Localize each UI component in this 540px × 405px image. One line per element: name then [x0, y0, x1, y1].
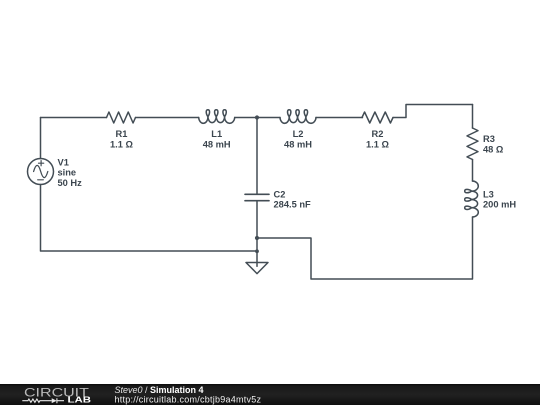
resistor R3 — [467, 128, 478, 159]
resistor R1 — [107, 112, 136, 123]
svg-text:Steve0 / Simulation 4: Steve0 / Simulation 4 — [115, 385, 204, 395]
wire L3 bottom lead along bottom-right loop to C2 bottom node — [257, 217, 473, 279]
wire C2 bottom down — [256, 201, 258, 252]
logo resistor-diode line — [22, 398, 64, 403]
svg-text:L2: L2 — [293, 129, 304, 139]
svg-text:sine: sine — [58, 168, 77, 178]
svg-text:48 mH: 48 mH — [284, 140, 312, 150]
inductor L1 — [199, 110, 235, 124]
wire R1 to L1 — [136, 117, 199, 119]
svg-text:R3: R3 — [483, 134, 495, 144]
capacitor C2 — [245, 194, 269, 200]
junction node ground net — [255, 249, 259, 253]
svg-text:200 mH: 200 mH — [483, 199, 516, 209]
junction node C2 bottom to right branch — [255, 236, 259, 240]
svg-text:48 Ω: 48 Ω — [483, 145, 504, 155]
wire top-left horizontal — [41, 117, 107, 119]
svg-text:L1: L1 — [211, 129, 222, 139]
svg-text:284.5 nF: 284.5 nF — [274, 200, 312, 210]
footer bar — [0, 384, 540, 405]
voltage source V1 — [28, 159, 54, 185]
svg-text:1.1 Ω: 1.1 Ω — [110, 140, 134, 150]
wire R3 to L3 — [472, 160, 474, 182]
svg-text:50 Hz: 50 Hz — [58, 178, 83, 188]
svg-text:C2: C2 — [274, 190, 286, 200]
svg-text:V1: V1 — [58, 157, 69, 167]
wire L2 to R2 — [316, 117, 363, 119]
wire V1 bottom lead to ground node — [41, 185, 258, 252]
wire L1 to L2 through node — [235, 117, 280, 119]
inductor L3 — [465, 181, 479, 217]
svg-text:L3: L3 — [483, 190, 494, 200]
svg-text:1.1 Ω: 1.1 Ω — [366, 140, 390, 150]
junction node between L1 and L2 at C2 top branch — [255, 115, 259, 119]
svg-text:R1: R1 — [116, 129, 128, 139]
svg-text:http://circuitlab.com/cbtjb9a4: http://circuitlab.com/cbtjb9a4mtv5z — [115, 395, 262, 405]
inductor L2 — [280, 110, 316, 124]
svg-text:LAB: LAB — [68, 396, 91, 405]
wire R2 to top-right corner — [393, 105, 473, 118]
ground symbol — [256, 252, 258, 267]
svg-text:R2: R2 — [372, 129, 384, 139]
wire down to R3 — [472, 105, 474, 129]
svg-text:48 mH: 48 mH — [203, 140, 231, 150]
wire V1 top lead to top-left corner — [40, 118, 42, 159]
wire node to C2 top — [256, 118, 258, 195]
resistor R2 — [362, 112, 393, 123]
